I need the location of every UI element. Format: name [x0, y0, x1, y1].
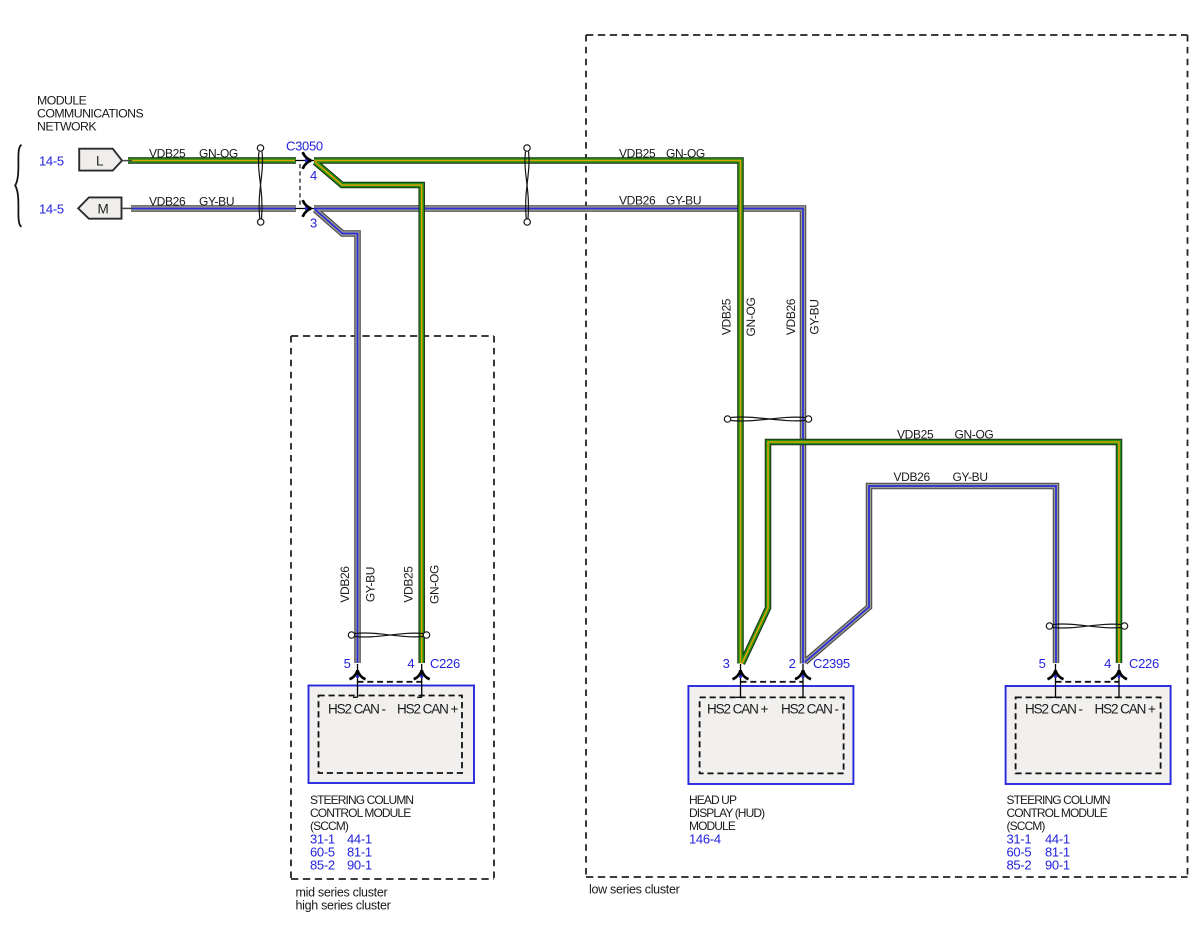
svg-text:HS2 CAN +: HS2 CAN +	[1095, 702, 1156, 717]
svg-text:HS2 CAN -: HS2 CAN -	[1025, 702, 1082, 717]
svg-text:3: 3	[310, 216, 317, 231]
svg-text:4: 4	[310, 168, 317, 183]
svg-text:HEAD UP: HEAD UP	[689, 793, 737, 807]
svg-text:C226: C226	[1129, 656, 1159, 671]
svg-text:GN-OG: GN-OG	[428, 565, 442, 604]
svg-text:mid series cluster: mid series cluster	[296, 886, 388, 900]
svg-text:STEERING COLUMN: STEERING COLUMN	[1007, 793, 1110, 807]
svg-text:GN-OG: GN-OG	[666, 147, 705, 161]
svg-text:STEERING COLUMN: STEERING COLUMN	[310, 793, 413, 807]
svg-text:90-1: 90-1	[1045, 858, 1070, 873]
svg-text:C226: C226	[430, 656, 460, 671]
svg-text:VDB26: VDB26	[149, 195, 186, 209]
svg-text:HS2 CAN +: HS2 CAN +	[397, 702, 458, 717]
svg-text:C3050: C3050	[286, 139, 323, 154]
svg-text:VDB26: VDB26	[784, 298, 798, 335]
svg-text:14-5: 14-5	[39, 202, 64, 217]
svg-text:4: 4	[1104, 656, 1111, 671]
svg-text:HS2 CAN -: HS2 CAN -	[328, 702, 385, 717]
svg-text:HS2 CAN -: HS2 CAN -	[781, 702, 838, 717]
svg-text:3: 3	[723, 656, 730, 671]
svg-text:low series cluster: low series cluster	[589, 883, 680, 897]
svg-text:14-5: 14-5	[39, 154, 64, 169]
svg-text:NETWORK: NETWORK	[37, 120, 97, 134]
svg-text:85-2: 85-2	[1007, 858, 1032, 873]
svg-text:GY-BU: GY-BU	[666, 194, 701, 208]
svg-text:2: 2	[789, 656, 796, 671]
svg-text:VDB26: VDB26	[338, 566, 352, 603]
svg-text:GY-BU: GY-BU	[953, 470, 988, 484]
svg-text:85-2: 85-2	[310, 858, 335, 873]
svg-text:M: M	[98, 201, 109, 216]
svg-text:VDB25: VDB25	[720, 298, 734, 335]
svg-text:VDB25: VDB25	[897, 428, 934, 442]
svg-text:L: L	[96, 153, 104, 168]
svg-text:GN-OG: GN-OG	[744, 298, 758, 337]
svg-text:GY-BU: GY-BU	[808, 299, 822, 334]
svg-text:5: 5	[1039, 656, 1046, 671]
svg-text:VDB25: VDB25	[149, 147, 186, 161]
svg-text:90-1: 90-1	[347, 858, 372, 873]
svg-text:5: 5	[344, 656, 351, 671]
svg-text:GN-OG: GN-OG	[199, 147, 238, 161]
svg-text:high series cluster: high series cluster	[296, 899, 391, 913]
svg-text:GY-BU: GY-BU	[199, 195, 234, 209]
svg-text:C2395: C2395	[813, 656, 850, 671]
svg-text:COMMUNICATIONS: COMMUNICATIONS	[37, 107, 144, 121]
svg-text:VDB26: VDB26	[894, 470, 931, 484]
svg-text:VDB26: VDB26	[619, 194, 656, 208]
svg-text:VDB25: VDB25	[619, 147, 656, 161]
svg-text:CONTROL MODULE: CONTROL MODULE	[1007, 806, 1108, 820]
svg-text:4: 4	[407, 656, 414, 671]
svg-text:MODULE: MODULE	[37, 94, 87, 108]
svg-text:CONTROL MODULE: CONTROL MODULE	[310, 806, 411, 820]
svg-text:DISPLAY (HUD): DISPLAY (HUD)	[689, 806, 765, 820]
svg-text:GY-BU: GY-BU	[363, 567, 377, 602]
svg-text:146-4: 146-4	[689, 832, 721, 847]
svg-text:HS2 CAN +: HS2 CAN +	[707, 702, 768, 717]
svg-text:VDB25: VDB25	[401, 566, 415, 603]
svg-text:GN-OG: GN-OG	[955, 428, 994, 442]
